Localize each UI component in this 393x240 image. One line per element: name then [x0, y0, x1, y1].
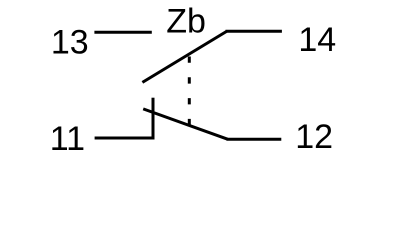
svg-text:14: 14	[298, 21, 336, 59]
wire (lead of terminal 12)	[227, 138, 282, 141]
wire (lead of terminal 14)	[226, 30, 282, 33]
wire (lead of terminal 11)	[95, 137, 155, 140]
svg-text:12: 12	[295, 118, 333, 156]
contact fixed bar (break contact 11-12)	[152, 98, 155, 140]
mechanical linkage (dashed)	[188, 57, 191, 126]
svg-text:13: 13	[51, 24, 89, 62]
contact blade (make contact 13-14, open)	[142, 31, 226, 82]
svg-text:11: 11	[50, 120, 85, 158]
svg-text:Zb: Zb	[166, 2, 206, 40]
wire (lead of terminal 13)	[94, 31, 151, 34]
contact blade (break contact 11-12, closed)	[143, 109, 227, 139]
